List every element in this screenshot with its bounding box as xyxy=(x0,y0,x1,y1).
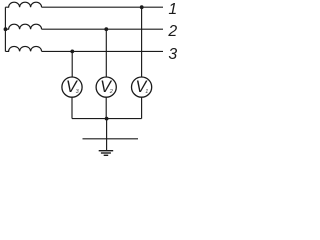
svg-text:1: 1 xyxy=(145,89,148,95)
wire drop to voltmeter V3 xyxy=(71,51,73,76)
ground bar 1 xyxy=(99,150,114,152)
voltmeter V1 xyxy=(132,77,152,97)
wire V2 bottom lead xyxy=(105,97,107,118)
wire phase line 3 xyxy=(42,50,163,52)
node on line 3 xyxy=(70,50,74,54)
node star point xyxy=(4,27,8,31)
svg-text:3: 3 xyxy=(168,46,177,63)
wire phase line 2 xyxy=(42,28,163,30)
svg-text:1: 1 xyxy=(168,1,177,18)
ground bar 3 xyxy=(104,154,109,156)
wire earth bar xyxy=(83,138,139,140)
wire ground lead xyxy=(106,119,108,151)
wire V3 bottom lead xyxy=(71,97,73,118)
ground bar 2 xyxy=(101,152,111,154)
wire drop to voltmeter V1 xyxy=(141,7,143,77)
svg-text:2: 2 xyxy=(167,23,177,40)
wire drop to voltmeter V2 xyxy=(105,29,107,77)
voltmeter V2 xyxy=(96,77,116,97)
inductor L1 (phase 1 winding) xyxy=(5,2,41,7)
inductor L2 (phase 2 winding) xyxy=(5,24,41,29)
wire phase line 1 xyxy=(42,6,163,8)
wire V1 bottom lead xyxy=(141,97,143,118)
node bus junction xyxy=(105,117,109,121)
svg-text:2: 2 xyxy=(109,89,113,95)
wire left star-point vertical xyxy=(4,7,6,51)
node on line 1 xyxy=(140,5,144,9)
wire bottom bus xyxy=(72,118,142,120)
inductor L3 (phase 3 winding) xyxy=(5,46,41,51)
voltmeter V3 xyxy=(62,77,82,97)
node on line 2 xyxy=(104,27,108,31)
